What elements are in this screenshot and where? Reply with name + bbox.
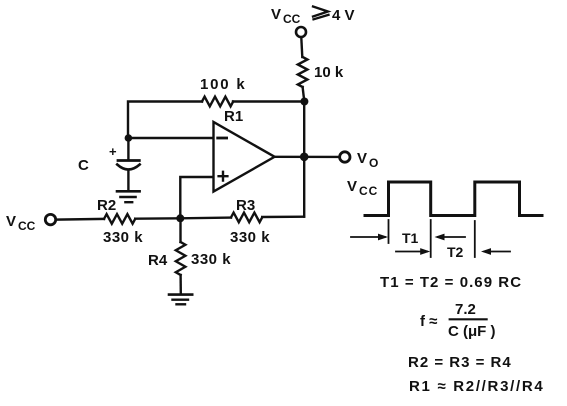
wire bbox=[179, 275, 182, 294]
svg-text:C (μF ): C (μF ) bbox=[448, 323, 496, 340]
svg-text:T1 = T2 = 0.69 RC: T1 = T2 = 0.69 RC bbox=[380, 274, 522, 291]
slanted geq symbol bbox=[313, 7, 329, 20]
junction inverting node bbox=[125, 134, 133, 142]
wire output drop bbox=[303, 102, 305, 217]
svg-text:T2: T2 bbox=[447, 244, 464, 260]
waveform square wave bbox=[365, 182, 542, 216]
svg-text:+: + bbox=[109, 144, 117, 159]
wire bbox=[56, 218, 104, 221]
svg-text:V: V bbox=[357, 150, 367, 167]
resistor R1 100 k bbox=[202, 97, 233, 107]
wire R3 left lead bbox=[180, 216, 231, 219]
svg-text:C: C bbox=[78, 157, 89, 174]
wire node to capacitor bbox=[127, 138, 129, 159]
wire bbox=[128, 102, 202, 139]
op-amp U1 bbox=[214, 122, 275, 192]
svg-text:R1: R1 bbox=[224, 108, 243, 125]
wire R4 top lead bbox=[179, 218, 181, 242]
svg-text:V: V bbox=[347, 178, 357, 195]
svg-text:V: V bbox=[6, 213, 16, 230]
tick T2 end bbox=[474, 221, 476, 257]
tick T1 end / T2 start bbox=[430, 220, 432, 257]
wire op-amp output bbox=[275, 156, 340, 158]
node VO terminal bbox=[340, 152, 350, 162]
op-amp plus sign bbox=[219, 172, 228, 181]
tick T1 start bbox=[388, 220, 390, 243]
fraction bar f formula bbox=[450, 318, 487, 320]
svg-text:CC: CC bbox=[359, 184, 378, 198]
resistor R3 330 k bbox=[231, 213, 262, 223]
capacitor C bbox=[118, 159, 139, 162]
svg-text:R2 = R3 = R4: R2 = R3 = R4 bbox=[408, 354, 512, 371]
op-amp minus sign bbox=[218, 137, 227, 140]
ground (capacitor) bbox=[117, 190, 140, 193]
svg-text:V: V bbox=[271, 6, 281, 23]
svg-text:R4: R4 bbox=[148, 252, 168, 269]
arrow into T2 left bbox=[396, 251, 427, 253]
svg-text:100 k: 100 k bbox=[200, 76, 247, 93]
svg-text:CC: CC bbox=[283, 12, 301, 26]
ground (R4) bbox=[169, 293, 192, 296]
svg-text:10 k: 10 k bbox=[314, 64, 344, 81]
node VCC supply terminal bbox=[296, 27, 306, 37]
arrow into T2 right bbox=[485, 251, 511, 253]
arrow into T1 right bbox=[438, 236, 465, 238]
resistor 10 k bbox=[298, 57, 308, 87]
svg-text:R3: R3 bbox=[236, 197, 255, 214]
junction output node bbox=[300, 153, 309, 162]
resistor R2 330 k bbox=[104, 214, 135, 224]
svg-text:O: O bbox=[369, 156, 378, 170]
svg-text:R2: R2 bbox=[97, 197, 116, 214]
svg-text:f ≈: f ≈ bbox=[420, 313, 437, 330]
svg-text:R1 ≈ R2//R3//R4: R1 ≈ R2//R3//R4 bbox=[409, 378, 544, 395]
svg-text:CC: CC bbox=[18, 219, 36, 233]
node VCC left terminal bbox=[45, 214, 55, 224]
wire bbox=[303, 87, 305, 102]
svg-text:T1: T1 bbox=[402, 230, 419, 246]
junction plus-input node bbox=[176, 214, 184, 222]
wire bbox=[135, 217, 180, 220]
svg-text:330 k: 330 k bbox=[103, 229, 143, 246]
svg-text:4 V: 4 V bbox=[332, 7, 355, 24]
wire feedback top left bbox=[233, 100, 304, 102]
arrow into T1 left bbox=[351, 236, 385, 238]
resistor R4 330 k bbox=[176, 242, 186, 275]
svg-text:330 k: 330 k bbox=[191, 251, 231, 268]
wire bbox=[262, 215, 304, 218]
svg-text:330 k: 330 k bbox=[230, 229, 270, 246]
junction top node bbox=[300, 98, 308, 106]
svg-text:7.2: 7.2 bbox=[455, 301, 476, 318]
wire to inverting input bbox=[128, 137, 213, 139]
wire to non-inverting input bbox=[180, 177, 213, 218]
wire bbox=[301, 38, 302, 58]
